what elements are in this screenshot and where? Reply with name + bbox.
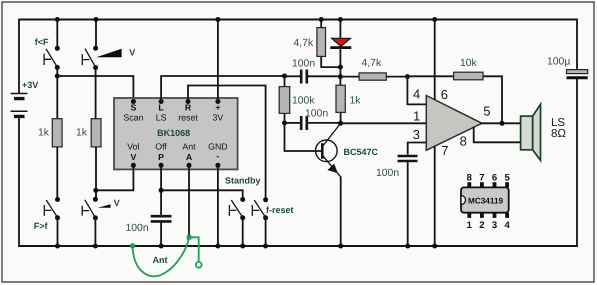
wire LED to node B bbox=[339, 49, 341, 85]
wire L pin to C1 node bbox=[161, 76, 284, 102]
wire pin 4 bbox=[407, 77, 426, 105]
wire node C to Q1 base bbox=[285, 123, 322, 151]
node bottom rail / GND bbox=[215, 244, 220, 249]
pin S bbox=[131, 99, 136, 104]
node top rail / f&lt;F branch bbox=[55, 17, 60, 22]
wire R5 to node E bbox=[386, 76, 407, 78]
svg-text:100µ: 100µ bbox=[547, 57, 570, 68]
svg-text:100n: 100n bbox=[305, 108, 328, 119]
svg-text:V: V bbox=[129, 47, 135, 57]
node top rail / +3V pin bbox=[215, 17, 220, 22]
wire V1 switch to R2 (crosses scan wire) bbox=[95, 68, 97, 119]
svg-text:S: S bbox=[130, 102, 136, 112]
speaker LS bbox=[521, 104, 541, 160]
wire R4 bottom to node C bbox=[284, 113, 286, 123]
svg-text:8Ω: 8Ω bbox=[551, 128, 566, 140]
switch S3 F&gt;f bbox=[44, 197, 60, 220]
wire S scan line bbox=[57, 76, 133, 102]
wire pin 3 bbox=[408, 143, 427, 155]
wire f&lt;F switch top branch bbox=[56, 19, 58, 49]
wire Ant pin down bbox=[188, 165, 190, 237]
capacitor C3 100n (audio) bbox=[398, 156, 418, 161]
pin L bbox=[159, 99, 164, 104]
pin GND bbox=[215, 163, 220, 168]
svg-text:reset: reset bbox=[178, 113, 198, 123]
wire pin 6 from top rail bbox=[434, 19, 436, 100]
svg-text:f-reset: f-reset bbox=[266, 205, 294, 215]
resistor R3 4,7k (vertical) bbox=[317, 28, 326, 57]
node B2 (C1 / R5 horizontal) bbox=[338, 74, 343, 79]
wire bottom ground rail bbox=[19, 245, 577, 247]
svg-text:V: V bbox=[114, 198, 120, 208]
V2 wedge symbol bbox=[98, 204, 111, 208]
resistor R2 1k bbox=[91, 119, 101, 147]
node Off wire / standby branch bbox=[159, 188, 164, 193]
node top rail / pin6 bbox=[432, 17, 437, 22]
svg-text:5: 5 bbox=[483, 104, 490, 119]
wire Vol pin to V2 switch bbox=[96, 165, 134, 190]
svg-text:6: 6 bbox=[441, 87, 448, 102]
capacitor C4 100n bbox=[151, 216, 172, 221]
svg-text:100n: 100n bbox=[376, 168, 399, 179]
wire C4 to ground rail bbox=[160, 223, 162, 247]
switch S1 f&lt;F bbox=[44, 46, 60, 70]
wire right rail (100u branch) bbox=[576, 19, 578, 247]
wire pin 7 to ground rail bbox=[434, 146, 436, 246]
node A (S-wire / R1 top) bbox=[55, 74, 60, 79]
wire node B2 to R5 bbox=[340, 76, 359, 78]
capacitor C1 100n bbox=[301, 70, 307, 84]
svg-text:-: - bbox=[216, 151, 219, 161]
svg-text:3: 3 bbox=[492, 220, 497, 231]
switch S2 V (volume up) bbox=[82, 46, 98, 70]
node bottom rail / F&gt;f bbox=[55, 244, 60, 249]
wire R2 to V2 switch bbox=[95, 147, 97, 199]
wire Q1 emitter to ground rail bbox=[340, 177, 342, 247]
wire R6 bottom to node D bbox=[340, 112, 342, 123]
svg-text:1: 1 bbox=[413, 108, 420, 123]
switch S5 Standby bbox=[229, 197, 245, 220]
node top rail / R3 bbox=[319, 17, 324, 22]
pin Ant bbox=[187, 163, 192, 168]
wire R7 to output node bbox=[483, 76, 502, 123]
svg-text:Ant: Ant bbox=[153, 255, 168, 265]
svg-text:F>f: F>f bbox=[34, 221, 49, 231]
svg-text:100k: 100k bbox=[292, 96, 315, 107]
switch S4 V (volume down) bbox=[82, 197, 98, 221]
wire V1 switch top branch bbox=[95, 19, 97, 49]
LED D1 (red) bbox=[330, 38, 351, 47]
antenna Ant (green) bbox=[133, 237, 202, 276]
svg-text:4,7k: 4,7k bbox=[294, 38, 314, 49]
svg-text:7: 7 bbox=[479, 172, 484, 183]
svg-text:A: A bbox=[186, 152, 193, 162]
transistor Q1 BC547C bbox=[316, 123, 341, 177]
op-amp U2 (MC34119 amp triangle) bbox=[426, 96, 482, 151]
wire R pin to f-reset switch bbox=[188, 86, 266, 201]
IC1 BK1068 box bbox=[114, 98, 238, 169]
node C (R4 / C2 / base wire) bbox=[282, 120, 287, 125]
node bottom rail / C3 bbox=[405, 244, 410, 249]
svg-text:Off: Off bbox=[155, 142, 167, 152]
svg-text:Scan: Scan bbox=[123, 113, 143, 123]
antenna junction dot (green) bbox=[187, 235, 192, 240]
node B (R3 / LED) bbox=[338, 65, 343, 70]
svg-text:1k: 1k bbox=[38, 128, 50, 139]
wire C2 left stub bbox=[285, 122, 301, 124]
svg-text:V: V bbox=[130, 152, 136, 162]
svg-text:Ant: Ant bbox=[182, 142, 196, 152]
svg-text:BK1068: BK1068 bbox=[157, 128, 190, 138]
wire Off pin down to C4 bbox=[160, 165, 162, 215]
svg-text:f<F: f<F bbox=[35, 37, 49, 47]
svg-text:100n: 100n bbox=[292, 59, 315, 70]
pin Off bbox=[159, 163, 164, 168]
svg-text:5: 5 bbox=[504, 172, 510, 183]
wire GND pin to ground rail bbox=[217, 165, 219, 246]
resistor R1 1k bbox=[52, 119, 62, 147]
node bottom rail / emitter bbox=[338, 244, 343, 249]
resistor R5 4,7k (horizontal) bbox=[359, 73, 386, 80]
wire R3 bottom to LED line bbox=[321, 56, 340, 67]
wire C1 left stub bbox=[285, 75, 301, 77]
svg-text:7: 7 bbox=[441, 143, 448, 158]
node D (R6 / C2 / collector / pin1) bbox=[338, 121, 343, 126]
wire F&gt;f to ground rail bbox=[57, 218, 59, 246]
antenna tap dot (green) bbox=[130, 243, 135, 248]
svg-text:3: 3 bbox=[413, 127, 420, 142]
resistor R6 1k (mid) bbox=[336, 85, 345, 112]
pin Vol bbox=[131, 163, 136, 168]
resistor R4 100k bbox=[279, 87, 290, 114]
node bottom rail / pin7 bbox=[432, 244, 437, 249]
svg-text:4: 4 bbox=[504, 220, 510, 231]
svg-text:P: P bbox=[158, 152, 164, 162]
node bottom rail / f-reset bbox=[263, 244, 268, 249]
capacitor C5 100u (electrolytic) bbox=[567, 70, 588, 78]
wire f-reset to ground rail bbox=[265, 218, 267, 246]
svg-text:MC34119: MC34119 bbox=[468, 197, 503, 206]
svg-text:3V: 3V bbox=[213, 113, 224, 123]
wire C3 to ground rail bbox=[407, 162, 409, 246]
BK1068 pin labels bbox=[123, 102, 227, 162]
svg-text:1k: 1k bbox=[350, 96, 362, 107]
svg-text:Standby: Standby bbox=[225, 175, 261, 185]
wire top rail to R3 bbox=[320, 19, 322, 28]
wire V2 to ground rail bbox=[94, 218, 96, 246]
svg-text:LS: LS bbox=[156, 113, 167, 123]
wire node E to R7 bbox=[407, 75, 453, 77]
switch S6 f-reset bbox=[252, 197, 268, 220]
wire top supply rail bbox=[19, 18, 577, 20]
wire output pin 5 to speaker bbox=[481, 122, 521, 124]
node output (pin5 / R7) bbox=[500, 121, 505, 126]
svg-text:100n: 100n bbox=[126, 223, 149, 234]
V1 wedge symbol bbox=[96, 49, 121, 57]
svg-text:+: + bbox=[215, 102, 220, 112]
node top rail / V1 branch bbox=[94, 17, 99, 22]
wire standby branch bbox=[161, 190, 243, 199]
svg-text:1: 1 bbox=[467, 220, 473, 231]
svg-text:4,7k: 4,7k bbox=[362, 58, 382, 69]
IC U2 MC34119 DIP package bbox=[461, 182, 509, 218]
svg-text:LS: LS bbox=[551, 117, 565, 129]
node top rail / LED bbox=[338, 17, 343, 22]
svg-text:10k: 10k bbox=[460, 58, 478, 69]
pin + bbox=[215, 99, 220, 104]
wire f&lt;F to node A bbox=[56, 67, 58, 119]
node bottom rail / V2 bbox=[93, 244, 98, 249]
svg-text:6: 6 bbox=[492, 172, 497, 183]
resistor R7 10k bbox=[454, 72, 483, 80]
wire C1 right to node B bbox=[308, 75, 340, 77]
capacitor C2 100n bbox=[301, 116, 307, 130]
wire pin 8 to speaker bbox=[474, 127, 521, 143]
wire + pin to top rail bbox=[217, 19, 219, 102]
svg-text:8: 8 bbox=[467, 172, 472, 183]
svg-text:L: L bbox=[158, 102, 164, 112]
svg-text:4: 4 bbox=[413, 86, 420, 101]
wire R4 top stub bbox=[284, 76, 286, 87]
svg-text:2: 2 bbox=[479, 220, 484, 231]
DIP pin numbers bottom 1 2 3 4 bbox=[467, 220, 511, 231]
battery BT1 +3V bbox=[11, 94, 28, 117]
wire left rail (battery branch) bbox=[18, 19, 20, 247]
svg-text:Vol: Vol bbox=[127, 142, 139, 152]
node bottom rail / standby bbox=[240, 244, 245, 249]
wire top rail to LED bbox=[339, 19, 341, 38]
svg-text:+3V: +3V bbox=[22, 80, 38, 90]
wire R1 to F&gt;f switch bbox=[56, 147, 58, 200]
svg-text:R: R bbox=[185, 102, 192, 112]
node bottom rail / C4 bbox=[159, 244, 164, 249]
wire pin 1 bbox=[341, 122, 427, 124]
svg-text:BC547C: BC547C bbox=[344, 147, 379, 157]
DIP pin numbers top 8 7 6 5 bbox=[467, 172, 511, 183]
svg-text:8: 8 bbox=[460, 134, 467, 149]
wire C2 right to node D bbox=[308, 122, 341, 124]
node E (R5 / R7 / pin4) bbox=[405, 74, 410, 79]
pin R bbox=[186, 99, 191, 104]
svg-text:1k: 1k bbox=[76, 128, 88, 139]
wire Standby to ground rail bbox=[242, 218, 244, 246]
node C1 junction (L-wire / R4 / C1) bbox=[282, 74, 287, 79]
node Vol wire / R2 bbox=[93, 188, 98, 193]
